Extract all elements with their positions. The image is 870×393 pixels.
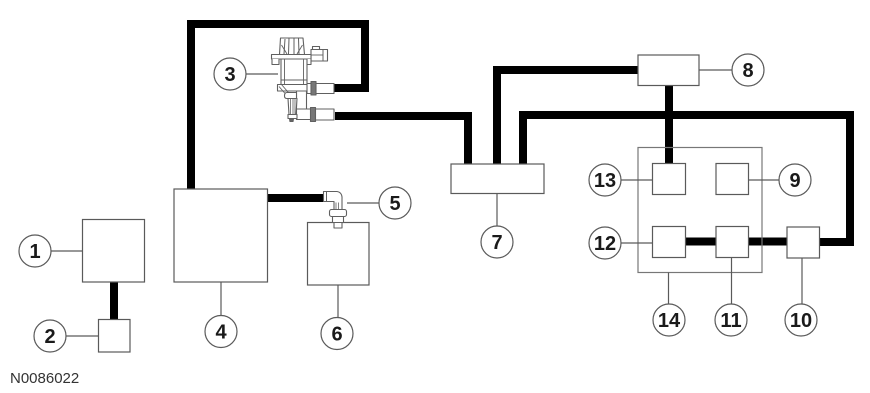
callout circle 6	[321, 318, 353, 350]
svg-text:7: 7	[491, 232, 502, 254]
hose: component 4 to elbow fitting 5	[267, 194, 328, 202]
component 13 box	[653, 164, 686, 195]
valve 3 lower funnel nozzle	[279, 87, 289, 98]
component 4 box	[174, 189, 268, 282]
leader line callout 10	[801, 258, 803, 304]
hose: component 12 to component 11	[684, 238, 717, 246]
component 3 purge valve drawing	[272, 38, 335, 122]
svg-text:11: 11	[720, 310, 741, 332]
leader line callout 4	[220, 282, 222, 316]
hose: component 11 to component 10	[747, 238, 788, 246]
svg-text:5: 5	[389, 193, 400, 215]
component 6 box	[308, 223, 370, 286]
component 7 box	[451, 164, 544, 194]
component 2 box	[99, 320, 131, 353]
leader line callout 2	[66, 335, 99, 337]
callout circle 4	[205, 316, 237, 348]
callout circle 14	[653, 304, 685, 336]
svg-text:2: 2	[44, 326, 55, 348]
component 14 outer box	[638, 148, 762, 273]
svg-text:14: 14	[658, 310, 681, 332]
hose: component 7 long run to component 10	[523, 115, 850, 242]
svg-text:8: 8	[742, 60, 753, 82]
leader line callout 3	[246, 73, 278, 75]
component 10 box	[787, 227, 820, 258]
callout circle 11	[715, 304, 747, 336]
leader line callout 7	[496, 194, 498, 227]
leader line callout 11	[731, 258, 733, 305]
leader line callout 1	[51, 250, 83, 252]
svg-text:4: 4	[215, 322, 227, 344]
hose: component 8 to component 13	[665, 85, 673, 164]
hose: component 7 to component 8	[497, 70, 639, 166]
hose: component 1 to component 2	[110, 282, 118, 321]
callout circle 12	[589, 227, 621, 259]
component 9 box	[716, 164, 749, 195]
callout circle 8	[732, 54, 764, 86]
svg-text:1: 1	[29, 241, 40, 263]
hose: purge valve lower port to component 7	[335, 116, 468, 166]
callout circle 7	[481, 226, 513, 258]
callout circle 9	[779, 164, 811, 196]
svg-text:N0086022: N0086022	[10, 370, 79, 387]
leader line callout 12	[621, 242, 653, 244]
component 1 box	[83, 220, 145, 283]
leader line callout 14	[668, 273, 670, 305]
leader line callout 13	[621, 179, 653, 181]
svg-text:6: 6	[331, 324, 342, 346]
component 11 box	[716, 227, 749, 258]
callout circle 1	[19, 235, 51, 267]
svg-text:10: 10	[790, 310, 812, 332]
callout circle 5	[379, 187, 411, 219]
lower hose port of valve 3	[316, 109, 335, 120]
valve 3 lower elbow tube	[297, 91, 307, 110]
leader line callout 9	[749, 179, 780, 181]
callout circle 3	[214, 58, 246, 90]
callout circle 10	[785, 304, 817, 336]
component 5 elbow fitting drawing	[324, 192, 347, 229]
svg-text:13: 13	[594, 170, 616, 192]
callout circle 13	[589, 164, 621, 196]
leader line callout 5	[347, 202, 379, 204]
hose: purge valve upper port loop to component 4 top	[191, 24, 365, 190]
component 12 box	[653, 227, 686, 258]
svg-text:3: 3	[224, 64, 235, 86]
upper hose port of valve 3	[307, 84, 334, 94]
svg-text:12: 12	[594, 233, 616, 255]
leader line callout 8	[699, 69, 732, 71]
component 8 box	[638, 55, 699, 86]
callout circle 2	[34, 320, 66, 352]
leader line callout 6	[337, 285, 339, 318]
svg-text:9: 9	[789, 170, 800, 192]
